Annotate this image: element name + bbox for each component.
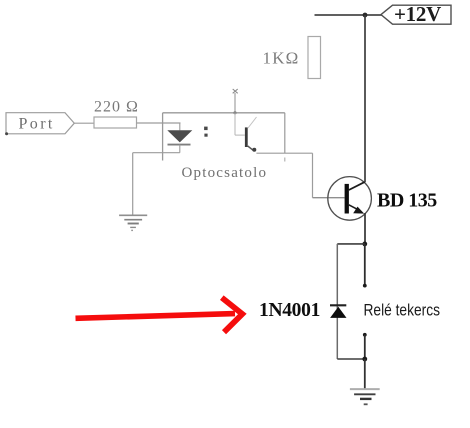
diode D2 1N4001 [330, 305, 347, 318]
svg-text:Optocsatolo: Optocsatolo [182, 165, 268, 181]
label Optocsatolo [182, 165, 268, 181]
label Rele tekercs [364, 301, 441, 320]
wire R2 to LED anode [137, 122, 181, 124]
wire top rail to +12V [315, 14, 384, 16]
optocoupler U1 box left edge [162, 113, 164, 161]
svg-text:BD 135: BD 135 [377, 190, 437, 212]
coupling dots between LED and phototransistor [204, 127, 208, 137]
optocoupler U1 box right edge [284, 113, 286, 162]
power flag +12V [381, 2, 451, 26]
svg-text:1N4001: 1N4001 [259, 300, 320, 321]
resistor R1 1K ohm body [308, 37, 321, 79]
wire emitter down [364, 213, 366, 244]
node junction bottom of relay branch [362, 357, 367, 362]
wire down from emitter run [312, 153, 314, 198]
wire phototransistor emitter run [256, 152, 312, 154]
relay coil upper lead [363, 244, 367, 288]
svg-text:Relé tekercs: Relé tekercs [364, 301, 441, 320]
svg-text:220 Ω: 220 Ω [94, 99, 139, 116]
wire down to input ground [132, 153, 134, 216]
svg-text:+12V: +12V [394, 2, 441, 26]
phototransistor Q1 of optocoupler [245, 117, 257, 152]
wire to output ground [364, 359, 366, 389]
label 1N4001 [259, 300, 320, 321]
wire base lead inside optocoupler [235, 113, 245, 135]
pin marker x above optocoupler [233, 89, 238, 93]
transistor Q2 body circle [328, 177, 372, 221]
wire diode branch vertical [336, 244, 338, 359]
wire top of diode branch [337, 243, 365, 245]
ground output side [350, 389, 380, 404]
transistor Q2 collector lead [349, 182, 365, 190]
wire collector up to +12V [364, 15, 366, 182]
resistor R2 220 ohm body [94, 117, 137, 128]
wire Port to R2 [74, 122, 95, 124]
transistor Q2 base bar [345, 184, 349, 214]
value label 1K ohm [263, 49, 300, 68]
value label 220 ohm [94, 99, 139, 116]
wire bottom of diode branch [337, 358, 365, 360]
label BD 135 [377, 190, 437, 212]
transistor Q2 emitter lead with arrow [349, 205, 364, 214]
ground input side [119, 215, 147, 231]
node junction top of relay branch [362, 242, 367, 247]
wire to transistor base [313, 197, 345, 199]
LED D1 of optocoupler [167, 123, 192, 153]
svg-text:Port: Port [19, 116, 55, 133]
wire LED cathode to ground branch [133, 152, 180, 154]
wire collector stub above box [233, 93, 236, 114]
optocoupler U1 box top edge [163, 112, 285, 114]
relay coil lower lead [363, 333, 367, 359]
annotation arrow pointing to 1N4001 [76, 298, 243, 333]
svg-text:1KΩ: 1KΩ [263, 49, 300, 68]
port flag Port [5, 113, 74, 136]
node junction at +12V rail [363, 13, 368, 18]
